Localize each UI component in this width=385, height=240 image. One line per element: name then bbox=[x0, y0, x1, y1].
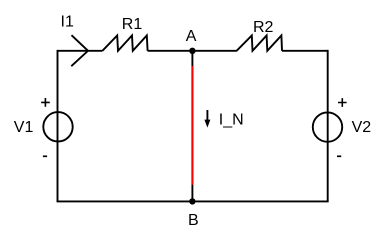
svg-text:I_N: I_N bbox=[219, 111, 244, 128]
wire top-right segment bbox=[282, 50, 328, 52]
svg-text:V2: V2 bbox=[352, 119, 372, 136]
wire right vertical bbox=[327, 50, 329, 202]
voltage source V2 bbox=[313, 112, 342, 141]
V2 plus sign bbox=[338, 98, 347, 107]
wire middle vertical A-B bbox=[191, 51, 193, 202]
svg-text:R2: R2 bbox=[253, 19, 274, 36]
node A dot bbox=[189, 48, 195, 54]
svg-text:R1: R1 bbox=[122, 16, 143, 33]
wire top-middle segment bbox=[148, 50, 237, 52]
resistor R1 bbox=[102, 36, 147, 51]
svg-text:I1: I1 bbox=[61, 14, 74, 31]
wire bottom bbox=[57, 200, 329, 202]
wire left vertical bbox=[57, 50, 59, 202]
svg-text:B: B bbox=[188, 212, 199, 229]
wire highlighted red segment bbox=[191, 66, 193, 185]
current arrow I_N head bbox=[204, 120, 210, 128]
current arrow I1 bbox=[71, 35, 88, 66]
V2 minus sign bbox=[337, 155, 341, 157]
svg-text:V1: V1 bbox=[14, 119, 34, 136]
V1 plus sign bbox=[41, 98, 50, 107]
node B dot bbox=[189, 198, 195, 204]
V1 minus sign bbox=[43, 155, 47, 157]
wire top-left segment bbox=[58, 50, 103, 52]
voltage source V1 bbox=[43, 112, 72, 141]
current arrow I_N shaft bbox=[206, 110, 208, 122]
svg-text:A: A bbox=[186, 28, 197, 45]
resistor R2 bbox=[237, 36, 282, 51]
